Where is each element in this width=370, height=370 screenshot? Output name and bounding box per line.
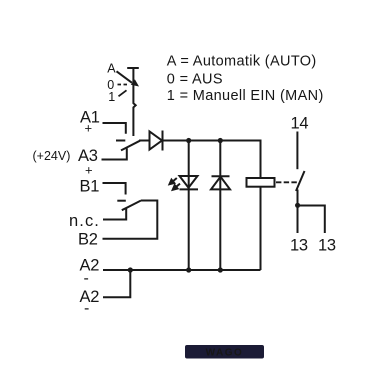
svg-text:14: 14: [291, 114, 309, 132]
svg-text:13: 13: [290, 237, 308, 255]
svg-text:(+24V): (+24V): [33, 149, 71, 163]
svg-text:1 = Manuell EIN (MAN): 1 = Manuell EIN (MAN): [167, 88, 324, 104]
svg-text:A2: A2: [80, 257, 100, 275]
svg-text:B2: B2: [78, 231, 98, 249]
svg-text:B1: B1: [80, 178, 100, 196]
svg-text:13: 13: [318, 237, 336, 255]
svg-text:-: -: [84, 270, 89, 287]
svg-text:A: A: [107, 62, 116, 76]
svg-text:n.c.: n.c.: [69, 212, 100, 230]
svg-text:WAGO: WAGO: [206, 348, 244, 359]
svg-text:A2: A2: [80, 288, 100, 306]
svg-text:+: +: [85, 162, 93, 177]
svg-text:A = Automatik (AUTO): A = Automatik (AUTO): [167, 54, 317, 70]
svg-text:1: 1: [108, 90, 115, 104]
svg-text:-: -: [84, 300, 89, 317]
svg-text:+: +: [85, 120, 93, 135]
svg-text:0 = AUS: 0 = AUS: [167, 72, 223, 88]
